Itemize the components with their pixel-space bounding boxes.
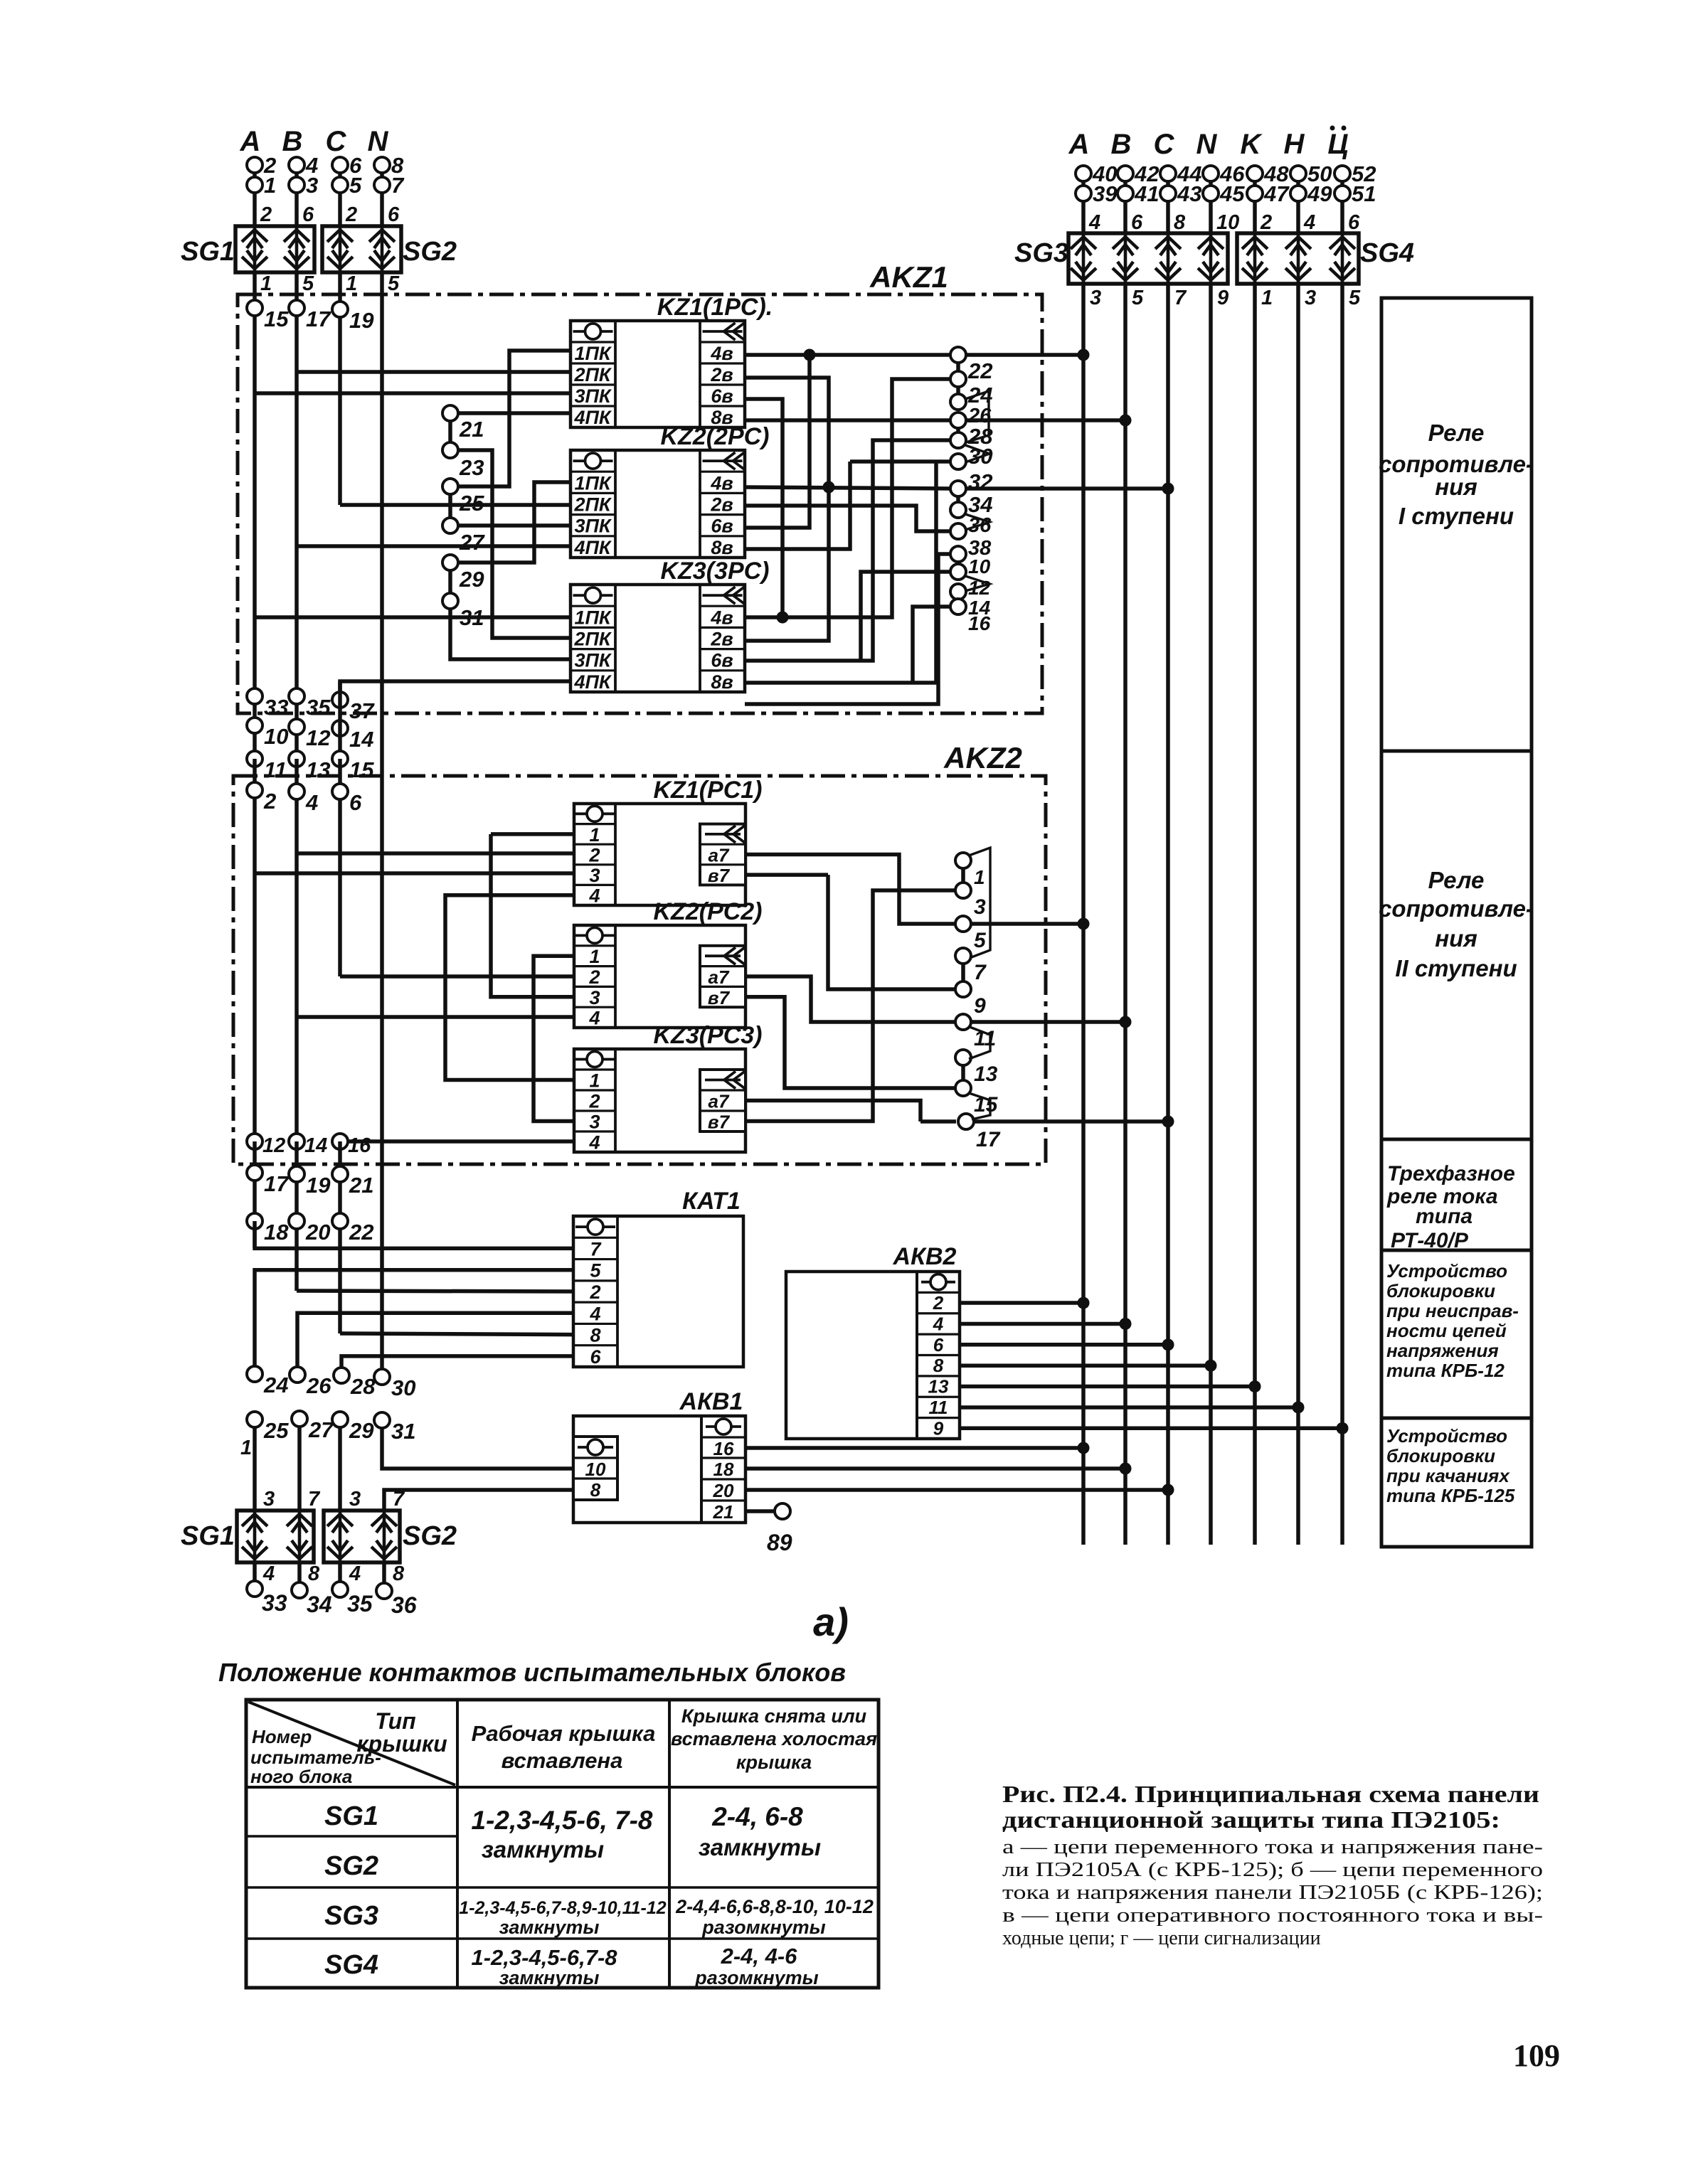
- SG3 contact: [1155, 233, 1181, 284]
- wire phase A in AKZ2: [253, 759, 257, 1141]
- wire AKB2 pin4 to bus B: [960, 1322, 1125, 1326]
- svg-text:6в: 6в: [711, 516, 733, 537]
- svg-text:2: 2: [589, 1282, 600, 1303]
- svg-text:1: 1: [974, 866, 985, 888]
- svg-text:в — цепи оперативного постоянн: в — цепи оперативного постоянного тока и…: [1002, 1905, 1543, 1927]
- SG1 contact B: [284, 226, 309, 272]
- wire phase column N upper: [380, 159, 384, 226]
- terminal 51: [1334, 186, 1350, 201]
- description box: Устройство блокировки КРБ-12: [1381, 1250, 1532, 1418]
- svg-text:8в: 8в: [711, 537, 733, 558]
- svg-text:1: 1: [1261, 287, 1273, 309]
- relay block KZ3(3РС): [571, 585, 745, 692]
- terminal 32: [950, 454, 966, 469]
- svg-text:АКВ2: АКВ2: [893, 1243, 957, 1270]
- svg-text:2: 2: [933, 1292, 944, 1314]
- terminal 5: [332, 177, 348, 193]
- svg-text:3: 3: [1090, 287, 1101, 309]
- KZ2(2РС) arrow symbol: [703, 459, 743, 462]
- relay block KZ1(РС1): [574, 804, 745, 905]
- svg-text:22: 22: [349, 1220, 373, 1245]
- svg-text:H: H: [1284, 129, 1305, 160]
- junction: [804, 349, 816, 361]
- svg-text:1ПК: 1ПК: [574, 607, 612, 628]
- svg-text:35: 35: [347, 1591, 373, 1616]
- terminal 9: [955, 981, 971, 997]
- svg-text:3: 3: [349, 1488, 361, 1511]
- svg-text:8: 8: [308, 1562, 320, 1585]
- terminal 26: [950, 394, 966, 410]
- wire 22 to KAT1 pin 8: [340, 1333, 573, 1335]
- link 7-9: [961, 962, 965, 983]
- svg-text:8: 8: [590, 1325, 600, 1346]
- wire B to PC2 row4: [297, 1015, 574, 1019]
- terminal 30 (lower): [374, 1369, 390, 1385]
- svg-text:2: 2: [1260, 211, 1272, 234]
- svg-text:2в: 2в: [710, 364, 733, 385]
- svg-text:21: 21: [349, 1173, 373, 1198]
- wire phase column C upper: [338, 159, 342, 226]
- svg-text:4ПК: 4ПК: [573, 671, 612, 693]
- svg-text:4: 4: [1088, 211, 1100, 234]
- svg-text:KZ2(РС2): KZ2(РС2): [653, 898, 762, 925]
- svg-text:89: 89: [767, 1530, 792, 1555]
- terminal 52: [1334, 166, 1350, 181]
- svg-text:3ПК: 3ПК: [574, 650, 612, 671]
- svg-text:KZ3(РС3): KZ3(РС3): [653, 1022, 762, 1049]
- link 21-23: [448, 420, 452, 444]
- junction: [1337, 1422, 1349, 1434]
- terminal 27 (bottom): [292, 1411, 307, 1427]
- terminal 10: [247, 718, 262, 733]
- svg-text:типа КРБ-125: типа КРБ-125: [1386, 1485, 1515, 1506]
- svg-text:типа: типа: [1416, 1205, 1473, 1228]
- relay block KAT1: [573, 1216, 743, 1367]
- svg-text:16: 16: [713, 1438, 734, 1459]
- svg-text:4в: 4в: [710, 607, 733, 628]
- svg-text:1: 1: [589, 824, 600, 846]
- SG3 contact: [1198, 233, 1224, 284]
- KZ1(1РС). plug contact symbol: [573, 330, 613, 333]
- table outer box: [246, 1700, 879, 1988]
- table header bottom line: [246, 1786, 879, 1789]
- svg-text:Рабочая крышка: Рабочая крышка: [472, 1721, 656, 1746]
- svg-text:4в: 4в: [710, 343, 733, 364]
- svg-text:SG4: SG4: [324, 1950, 378, 1980]
- terminal 12 (AKZ2): [247, 1134, 262, 1149]
- svg-text:35: 35: [306, 695, 331, 720]
- svg-text:7: 7: [391, 173, 405, 198]
- terminal 11: [955, 1014, 971, 1030]
- terminal 12: [289, 719, 304, 735]
- terminal 22 (lower): [332, 1213, 348, 1229]
- svg-text:25: 25: [263, 1418, 289, 1443]
- svg-text:KZ3(3РС): KZ3(3РС): [660, 558, 769, 585]
- svg-text:дистанционной защиты типа ПЭ21: дистанционной защиты типа ПЭ2105:: [1002, 1807, 1500, 1833]
- svg-text:34: 34: [307, 1592, 332, 1617]
- svg-text:37: 37: [349, 698, 375, 723]
- wire A to PC1 row3: [255, 871, 574, 875]
- wire terminal 10 to KZ3 bottom: [745, 554, 951, 704]
- junction: [1078, 918, 1090, 930]
- svg-text:32: 32: [968, 469, 992, 494]
- wire SG2 pin7 to 36: [382, 1511, 386, 1584]
- wire C column to KAT1: [338, 1141, 342, 1333]
- junction: [777, 612, 789, 624]
- wire 4В KZ3 to terminal 24: [745, 379, 951, 617]
- KZ2(РС2) output column: [700, 946, 745, 1007]
- relay block KZ2(РС2): [574, 925, 745, 1028]
- svg-text:Ц: Ц: [1327, 129, 1348, 160]
- bus line B (right): [1123, 284, 1127, 1545]
- svg-text:1: 1: [589, 946, 600, 967]
- wire 28 to KAT1 pin 6: [341, 1356, 573, 1368]
- link 24-26: [956, 385, 960, 395]
- jumper zigzag 30-32: [965, 445, 989, 462]
- svg-text:замкнуты: замкнуты: [499, 1917, 600, 1938]
- svg-text:B: B: [1111, 129, 1132, 160]
- wire 5 to bus A: [970, 922, 1083, 926]
- AKB1 right column: [700, 1416, 703, 1523]
- svg-text:ходные цепи; г — цепи сигнализ: ходные цепи; г — цепи сигнализации: [1002, 1927, 1321, 1949]
- terminal 5: [955, 916, 971, 932]
- svg-text:4: 4: [1303, 211, 1315, 234]
- wire AKB2 pin6 to bus C: [960, 1343, 1168, 1347]
- svg-text:2-4, 6-8: 2-4, 6-8: [711, 1802, 803, 1831]
- terminal 6: [332, 784, 348, 799]
- terminal 44: [1160, 166, 1176, 181]
- junction: [823, 481, 835, 494]
- SG2 bottom contact C: [327, 1511, 353, 1562]
- svg-text:5: 5: [1132, 287, 1144, 309]
- svg-text:16: 16: [968, 612, 991, 634]
- terminal 47: [1247, 186, 1263, 201]
- svg-text:6: 6: [349, 790, 362, 815]
- svg-text:ния: ния: [1435, 925, 1477, 952]
- terminal 14 (AKZ2): [289, 1134, 304, 1149]
- terminal 14: [332, 720, 348, 736]
- wire а7 PC3 to terminal 17: [745, 1101, 920, 1122]
- KZ3(3РС) plug contact symbol: [573, 594, 613, 597]
- terminal 2: [247, 782, 262, 798]
- KZ1(РС1) plug contact symbol: [575, 812, 615, 815]
- terminal 14 (right): [950, 584, 966, 600]
- svg-text:Тип: Тип: [375, 1708, 415, 1734]
- wire PC2 row1 to PC3 row3: [534, 956, 574, 1121]
- svg-text:4: 4: [305, 790, 318, 815]
- svg-text:13: 13: [928, 1376, 949, 1397]
- svg-text:34: 34: [968, 492, 992, 517]
- svg-text:15: 15: [349, 757, 374, 782]
- svg-text:17: 17: [976, 1128, 1001, 1151]
- svg-text:типа КРБ-12: типа КРБ-12: [1386, 1360, 1505, 1381]
- wire 29 to 1ПК KZ2: [457, 482, 571, 563]
- svg-text:замкнуты: замкнуты: [499, 1967, 600, 1988]
- svg-text:49: 49: [1307, 181, 1332, 206]
- wire 4В KZ1 to terminal 22: [745, 353, 951, 357]
- wire 24 to KAT1 pin 5: [255, 1270, 573, 1367]
- svg-text:тока и напряжения панели ПЭ210: тока и напряжения панели ПЭ2105Б (с КРБ-…: [1002, 1882, 1543, 1904]
- terminal 13: [955, 1050, 971, 1065]
- terminal 1: [955, 853, 971, 868]
- wire right column upper: [1123, 168, 1127, 233]
- svg-text:27: 27: [459, 530, 485, 555]
- SG4 contact: [1330, 233, 1355, 284]
- wire 26 to KAT1 pin 4: [297, 1313, 573, 1367]
- svg-text:KZ1(1РС).: KZ1(1РС).: [657, 294, 773, 321]
- svg-text:5: 5: [974, 929, 987, 952]
- wire 6В KZ1 down: [745, 399, 782, 617]
- terminal 4: [289, 784, 304, 799]
- svg-text:18: 18: [264, 1220, 289, 1245]
- svg-text:11: 11: [264, 757, 287, 782]
- description box: Реле сопротивления I ступени: [1381, 298, 1532, 751]
- link 34-36: [956, 495, 960, 504]
- KZ1(РС1) output column: [700, 824, 745, 885]
- junction: [1120, 415, 1132, 427]
- terminal 22: [950, 347, 966, 363]
- svg-text:5: 5: [349, 173, 362, 198]
- svg-text:AKZ1: AKZ1: [869, 260, 948, 294]
- svg-text:23: 23: [459, 455, 484, 480]
- wire terminal 12 to 6В KZ3 row: [861, 572, 951, 661]
- table header diagonal: [248, 1702, 455, 1785]
- svg-text:10: 10: [968, 555, 991, 577]
- svg-text:SG4: SG4: [1360, 238, 1414, 268]
- wire AKB2 pin13 to bus K: [960, 1385, 1255, 1389]
- wire C to PC2 row2: [340, 974, 574, 979]
- terminal 21: [442, 405, 458, 421]
- svg-text:2: 2: [260, 203, 272, 226]
- svg-text:2: 2: [588, 845, 600, 866]
- wire PC1 row1 to PC2 row3: [491, 834, 574, 997]
- svg-text:6: 6: [388, 203, 400, 226]
- test block SG2 (top): [322, 226, 401, 272]
- svg-text:крышка: крышка: [736, 1752, 812, 1773]
- wire AKB1 pin21 to terminal 89: [745, 1509, 775, 1513]
- SG2 contact N: [369, 226, 395, 272]
- wire в7 PC1 to terminal 9: [828, 875, 956, 989]
- terminal 31: [442, 593, 458, 609]
- svg-text:43: 43: [1177, 181, 1201, 206]
- svg-text:а): а): [813, 1599, 849, 1644]
- test block SG1 (top): [235, 226, 314, 272]
- wire 8В KZ1 to terminal 28: [745, 418, 951, 422]
- svg-text:Устройство: Устройство: [1386, 1260, 1507, 1282]
- svg-text:3: 3: [589, 1112, 600, 1133]
- svg-text:8: 8: [1174, 211, 1186, 234]
- link 22-24: [956, 361, 960, 373]
- terminal 6: [332, 157, 348, 173]
- wire C to 2ПК KZ2: [340, 503, 571, 507]
- wire terminal 32 row: [850, 459, 951, 464]
- svg-text:8: 8: [590, 1479, 601, 1501]
- terminal 89: [775, 1503, 790, 1519]
- junction: [1249, 1380, 1261, 1392]
- terminal 19: [332, 302, 348, 317]
- wire 23 to 2ПК KZ3: [457, 450, 571, 638]
- svg-text:19: 19: [306, 1173, 331, 1198]
- svg-text:разомкнуты: разомкнуты: [694, 1967, 818, 1988]
- svg-text:4ПК: 4ПК: [573, 407, 612, 428]
- svg-text:Реле: Реле: [1428, 420, 1485, 446]
- terminal 17 (right): [958, 1114, 974, 1129]
- svg-text:2: 2: [588, 1091, 600, 1112]
- terminal 4: [289, 157, 304, 173]
- KZ3(3РС) arrow symbol: [703, 594, 743, 597]
- wire terminal 37 column: [338, 681, 342, 759]
- terminal 34: [950, 481, 966, 496]
- wire 11 to bus B: [970, 1020, 1125, 1024]
- svg-text:1-2,3-4,5-6,7-8,9-10,11-12: 1-2,3-4,5-6,7-8,9-10,11-12: [459, 1898, 666, 1918]
- svg-text:а — цепи переменного тока и на: а — цепи переменного тока и напряжения п…: [1002, 1836, 1543, 1858]
- svg-text:1-2,3-4,5-6, 7-8: 1-2,3-4,5-6, 7-8: [471, 1806, 652, 1835]
- wire 29 to 35: [338, 1427, 342, 1582]
- wire right column upper: [1296, 168, 1300, 233]
- dash-dot boundary AKZ1: [238, 294, 1042, 713]
- svg-text:1: 1: [240, 1437, 252, 1459]
- wire terminal 16 to PC3 row4: [347, 1139, 574, 1144]
- wire 18 to KAT1 pin 7: [255, 1221, 573, 1248]
- terminal 48: [1247, 166, 1263, 181]
- svg-text:33: 33: [264, 695, 288, 720]
- junction: [1120, 1318, 1132, 1330]
- terminal 36: [950, 502, 966, 518]
- wire 34 to bus C: [965, 486, 1168, 491]
- terminal 15 (right): [955, 1080, 971, 1096]
- wire 20 to KAT1 pin 2: [297, 1291, 573, 1291]
- svg-text:Реле: Реле: [1428, 867, 1485, 893]
- wire phase C in AKZ2: [338, 759, 342, 976]
- svg-text:6в: 6в: [711, 650, 733, 671]
- wire AKB1 pin20 to bus C: [745, 1488, 1168, 1492]
- svg-text:14: 14: [304, 1134, 327, 1157]
- svg-text:1: 1: [346, 272, 357, 295]
- wire PC1 row1: [491, 832, 574, 836]
- wire 31 to AKB1 pin 10: [382, 1427, 573, 1469]
- terminal 28: [950, 412, 966, 428]
- svg-text:31: 31: [391, 1419, 415, 1444]
- svg-text:вставлена холостая: вставлена холостая: [671, 1728, 877, 1749]
- svg-text:разомкнуты: разомкнуты: [701, 1917, 825, 1938]
- wire 27 to 3ПК KZ2: [457, 523, 571, 528]
- svg-text:1: 1: [260, 272, 272, 295]
- terminal 39: [1076, 186, 1091, 201]
- svg-text:6: 6: [1131, 211, 1143, 234]
- svg-text:1ПК: 1ПК: [574, 343, 612, 364]
- svg-text:9: 9: [933, 1417, 944, 1439]
- SG4 contact: [1242, 233, 1268, 284]
- svg-text:47: 47: [1263, 181, 1290, 206]
- svg-text:21: 21: [713, 1501, 734, 1523]
- wire to terminal 17: [920, 1119, 956, 1124]
- junction: [1162, 1338, 1174, 1351]
- svg-text:24: 24: [263, 1373, 288, 1397]
- svg-text:33: 33: [262, 1590, 287, 1616]
- svg-text:2ПК: 2ПК: [573, 494, 612, 516]
- svg-text:2: 2: [345, 203, 357, 226]
- svg-text:20: 20: [305, 1220, 330, 1245]
- svg-text:SG2: SG2: [403, 237, 457, 267]
- svg-text:26: 26: [306, 1373, 331, 1398]
- wire right column upper: [1209, 168, 1213, 233]
- terminal 16 (right): [950, 599, 966, 614]
- terminal 13: [289, 751, 304, 767]
- svg-text:при качаниях: при качаниях: [1386, 1465, 1510, 1486]
- terminal 38: [950, 523, 966, 539]
- bus line A (right): [1081, 284, 1086, 1545]
- terminal 19 (lower): [289, 1166, 304, 1182]
- svg-text:2ПК: 2ПК: [573, 364, 612, 385]
- svg-text:3ПК: 3ПК: [574, 385, 612, 407]
- wire 2В KZ1 to 2В KZ3: [745, 378, 829, 641]
- bus line N (right): [1209, 284, 1213, 1545]
- svg-text:2-4,4-6,6-8,8-10, 10-12: 2-4,4-6,6-8,8-10, 10-12: [675, 1896, 874, 1917]
- table row line SG2/SG3: [246, 1886, 879, 1889]
- svg-text:а7: а7: [709, 845, 730, 866]
- jumper zigzag 12-14: [965, 576, 989, 591]
- svg-text:ности цепей: ности цепей: [1386, 1320, 1507, 1341]
- svg-text:18: 18: [713, 1459, 734, 1480]
- terminal 15: [247, 300, 262, 316]
- SG3 contact: [1113, 233, 1138, 284]
- svg-text:4: 4: [589, 1303, 600, 1324]
- test block SG2 (bottom): [324, 1511, 400, 1562]
- svg-text:6в: 6в: [711, 385, 733, 407]
- KZ2(2РС) plug contact symbol: [573, 459, 613, 462]
- terminal 17: [289, 300, 304, 316]
- SG2 contact C: [327, 226, 353, 272]
- wire AKB2 pin8 to bus N: [960, 1363, 1211, 1368]
- svg-text:27: 27: [308, 1417, 334, 1442]
- bus line K: [1253, 284, 1257, 1545]
- relay block AKB1: [573, 1416, 745, 1523]
- junction: [1162, 483, 1174, 495]
- wire phase column A upper: [253, 159, 257, 226]
- svg-text:12: 12: [306, 725, 330, 750]
- wire A to 1ПК KZ3: [255, 615, 571, 619]
- svg-text:вставлена: вставлена: [502, 1748, 623, 1773]
- terminal 7: [955, 948, 971, 964]
- svg-text:SG2: SG2: [324, 1851, 378, 1881]
- wire 22 to bus A: [965, 353, 1083, 357]
- terminal 16 (AKZ2): [332, 1134, 348, 1149]
- svg-text:1ПК: 1ПК: [574, 472, 612, 494]
- KZ3(РС3) plug contact symbol: [575, 1058, 615, 1061]
- wire 21 to 4ПК KZ1: [457, 411, 571, 415]
- svg-text:29: 29: [349, 1418, 374, 1443]
- terminal 45: [1203, 186, 1219, 201]
- AKB2 right column: [916, 1272, 918, 1439]
- wire terminal 16 to 8В KZ3 row: [913, 607, 951, 683]
- svg-text:7: 7: [590, 1238, 602, 1259]
- relay block KZ2(2РС): [571, 450, 745, 558]
- svg-text:5: 5: [590, 1260, 601, 1282]
- svg-text:Номер: Номер: [252, 1726, 312, 1747]
- terminal 18: [247, 1213, 262, 1229]
- svg-text:8в: 8в: [711, 671, 733, 693]
- svg-text:SG1: SG1: [181, 1521, 235, 1551]
- wire right column upper: [1166, 168, 1170, 233]
- terminal 11: [247, 751, 262, 767]
- wire right column upper: [1340, 168, 1344, 233]
- wire AKB1 pin16 to bus A: [745, 1446, 1083, 1450]
- svg-text:2: 2: [588, 966, 600, 988]
- wire 6В KZ3 to terminal 30: [745, 440, 951, 661]
- table column divider 1: [456, 1700, 459, 1988]
- wire phase N column: [380, 272, 384, 1377]
- terminal 42: [1118, 166, 1133, 181]
